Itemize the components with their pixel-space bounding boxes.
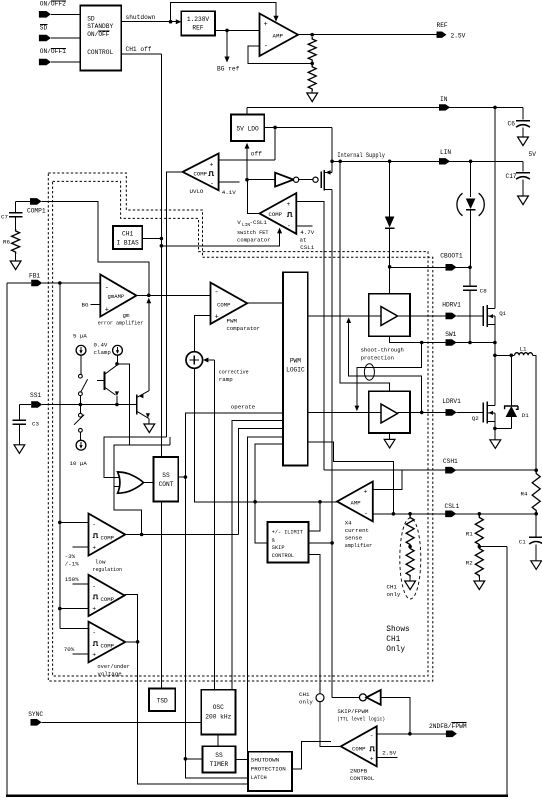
junction rail at driver supply <box>338 160 342 164</box>
wire SD to control block <box>51 37 80 39</box>
svg-text:-: - <box>92 630 96 637</box>
svg-text:AMP: AMP <box>273 33 284 40</box>
resistor divider upper <box>308 37 316 62</box>
junction FB1 bus <box>58 281 62 285</box>
svg-text:-: - <box>364 510 368 517</box>
wire low-reg plus stub <box>73 546 89 548</box>
svg-text:D1: D1 <box>522 412 529 419</box>
wire connector down to 2NDFB comp output <box>320 702 341 747</box>
svg-text:PWM: PWM <box>290 357 301 364</box>
wire operate bus <box>185 413 283 759</box>
svg-text:CH1: CH1 <box>122 230 133 237</box>
svg-text:2NDFB: 2NDFB <box>350 767 368 774</box>
op-amp gmAMP error amplifier <box>100 275 136 317</box>
svg-text:5V: 5V <box>529 151 537 158</box>
wire comp minus 4.7V stub <box>296 225 312 227</box>
svg-text:5 µA: 5 µA <box>73 332 87 339</box>
wire ramp bus from OSC <box>213 360 215 690</box>
svg-text:UVLO: UVLO <box>190 188 204 195</box>
transistor Q2 NMOS <box>482 403 484 423</box>
wire CS amp plus from CSH1 <box>373 470 402 489</box>
inverter SKIP/FPWM <box>359 694 366 701</box>
svg-text:SYNC: SYNC <box>28 711 43 718</box>
wire SS1 to lower contact <box>79 405 81 414</box>
svg-text:+: + <box>287 201 291 208</box>
capacitor C6 <box>522 107 524 119</box>
svg-text:ON/OFF: ON/OFF <box>87 31 110 38</box>
block SS CONT <box>154 457 179 502</box>
svg-text:Q1: Q1 <box>499 310 506 317</box>
svg-text:LOGIC: LOGIC <box>286 367 305 374</box>
block CH1 I BIAS <box>113 226 142 249</box>
op-amp current sense AMP x4 <box>337 482 373 522</box>
wire UVLO plus from LDO output <box>219 159 276 161</box>
svg-text:only: only <box>299 699 313 706</box>
wire ilimit out3 to CH1-only connector <box>308 555 320 694</box>
junction CSL1 at C1 <box>534 512 538 516</box>
diode circled boot (external option) <box>470 161 472 197</box>
wire Q2 drain to output rail <box>494 355 496 405</box>
wire LDO sense to UVLO+ <box>274 127 276 160</box>
junction 2NDFB pin node <box>408 732 412 736</box>
svg-text:COMP: COMP <box>269 211 283 218</box>
inverter before switch FET gate <box>275 173 293 187</box>
svg-text:I BIAS: I BIAS <box>116 239 139 246</box>
svg-text:-: - <box>92 522 96 529</box>
svg-text:5V LDO: 5V LDO <box>236 126 259 133</box>
junction CH1-off bus to comparator <box>160 244 164 248</box>
svg-text:low: low <box>95 558 106 565</box>
svg-text:STANDBY: STANDBY <box>87 23 113 30</box>
wire contact to 10uA <box>79 432 81 440</box>
svg-text:C8: C8 <box>480 288 487 295</box>
wire W1 logic to CSL1 <box>308 442 394 514</box>
transistor Q1 NMOS <box>482 306 484 326</box>
ground below Q4 <box>144 424 155 433</box>
wire UVLO output down to OR gate <box>167 172 183 437</box>
resistor R1 <box>475 516 483 547</box>
wire feedback tap to border <box>479 546 507 548</box>
svg-text:Q2: Q2 <box>472 415 479 422</box>
wire ON/OFF1 to control block <box>51 61 80 63</box>
ground below C1 <box>531 561 542 570</box>
wire upper driver supply from CBOOT <box>389 267 391 294</box>
junction off/inverter node <box>245 178 249 182</box>
resistor R6 <box>12 229 20 254</box>
svg-text:CONTROL: CONTROL <box>272 553 294 559</box>
svg-text:TIMER: TIMER <box>210 761 229 768</box>
wire clamp node to OR input bus <box>117 364 129 445</box>
junction LDO output <box>273 126 277 130</box>
junction ov/uv outputs <box>136 640 140 644</box>
svg-text:LATCH: LATCH <box>251 775 267 781</box>
dashed outer device boundary <box>48 173 433 681</box>
wire ilimit out2 to FPWM bus <box>308 542 332 544</box>
ground below R2 <box>474 581 485 590</box>
capacitor C7 <box>15 201 17 212</box>
switch blade lower <box>74 415 84 425</box>
svg-text:0.4V: 0.4V <box>94 341 108 348</box>
svg-text:CONT: CONT <box>159 481 174 488</box>
svg-text:Internal Supply: Internal Supply <box>337 152 385 159</box>
svg-text:C7: C7 <box>1 214 8 221</box>
junction SW at Q1 source <box>493 341 497 345</box>
wire CH1-off vertical bus to TSD <box>160 54 162 689</box>
wire CH1 off from control block <box>121 53 161 55</box>
svg-text:200 kHz: 200 kHz <box>205 714 231 721</box>
svg-text:BG ref: BG ref <box>217 66 240 73</box>
junction CSL1 at R1 <box>478 512 482 516</box>
resistor R4 <box>532 472 540 513</box>
wire SS1 node <box>19 404 31 406</box>
svg-text:protection: protection <box>361 354 394 361</box>
svg-text:2NDFB/FPWM: 2NDFB/FPWM <box>429 723 467 730</box>
transistor Q4 clamp NPN to gm output <box>136 394 138 414</box>
wire PWM logic in 4 (current sense) <box>255 444 283 543</box>
block OSC 200kHz <box>201 690 235 735</box>
wire L1 to CSH1 column <box>533 355 537 470</box>
junction output rail left <box>493 354 497 358</box>
junction IN rail to Q1 drain <box>493 106 497 110</box>
junction R1/R2 feedback <box>478 545 482 549</box>
switch contact upper <box>79 374 83 378</box>
comparator 2NDFB CONTROL <box>341 726 377 766</box>
svg-text:-: - <box>287 223 291 230</box>
wire HDRV1 from driver to gate <box>410 315 446 317</box>
wire upper driver return to SW <box>390 336 422 342</box>
svg-text:corrective: corrective <box>219 368 249 375</box>
transistor Q-SW switch FET (PMOS) <box>313 177 318 182</box>
wire PWM logic in 1 (clock) <box>232 420 283 689</box>
svg-text:CBOOT1: CBOOT1 <box>440 252 463 259</box>
svg-text:SD: SD <box>40 25 48 32</box>
svg-text:Shows: Shows <box>386 626 410 634</box>
svg-text:SKIP/FPWM: SKIP/FPWM <box>337 708 369 715</box>
junction AMP output divider <box>310 33 314 37</box>
block upper gate driver <box>369 294 410 337</box>
svg-text:REF: REF <box>192 25 203 32</box>
resistor R2 <box>475 547 483 578</box>
junction SW at driver return <box>420 341 424 345</box>
comparator switch FET (VLIN-CSL1) <box>260 193 297 234</box>
svg-text:R4: R4 <box>521 491 528 498</box>
wire OSC to SS TIMER <box>217 735 219 747</box>
svg-text:COMP: COMP <box>217 301 231 308</box>
svg-text:+: + <box>364 489 368 496</box>
svg-text:+: + <box>215 314 219 322</box>
svg-text:-: - <box>210 180 214 187</box>
svg-text:4.1V: 4.1V <box>222 189 236 196</box>
wire IN to 5V LDO <box>246 107 248 114</box>
wire ilimit out1 to cs node <box>308 502 320 531</box>
svg-text:CH1: CH1 <box>387 583 398 590</box>
wire SW1 <box>390 342 495 344</box>
junction CH1-only divider <box>408 545 412 549</box>
wire low-reg minus from FB1 bus <box>60 521 89 523</box>
junction rail at LDO feed <box>330 160 334 164</box>
svg-text:operate: operate <box>231 404 256 411</box>
svg-text:-CSL1: -CSL1 <box>250 219 268 226</box>
block TSD <box>149 689 175 712</box>
svg-text:SD: SD <box>87 16 95 23</box>
ground below C3 <box>14 445 25 454</box>
svg-text:150%: 150% <box>65 576 79 583</box>
resistor CH1-only lower <box>406 547 414 578</box>
svg-text:+: + <box>92 606 96 613</box>
gate OR <box>118 472 144 493</box>
svg-text:X4: X4 <box>345 519 352 526</box>
svg-text:-: - <box>215 289 219 297</box>
svg-text:IN: IN <box>440 96 448 103</box>
op-amp AMP (reference buffer) <box>260 14 299 57</box>
junction CBOOT at C8 <box>468 266 472 270</box>
svg-text:PROTECTION: PROTECTION <box>251 766 286 772</box>
svg-text:LDRV1: LDRV1 <box>442 398 461 405</box>
wire CS amp minus / CSL1 line <box>373 513 536 515</box>
ground arrow below R6 <box>15 254 17 261</box>
junction clamp node <box>115 362 119 366</box>
wire CSH1 line <box>324 469 536 471</box>
svg-text:comparator: comparator <box>237 236 271 243</box>
wire right feedback riser to R1/R2 <box>506 547 508 796</box>
svg-text:amplifier: amplifier <box>345 542 373 549</box>
junction CSL1 at W1 <box>392 512 396 516</box>
svg-text:10 µA: 10 µA <box>70 460 88 467</box>
wire PWM comparator output <box>247 302 283 304</box>
junction on SS1 wire (clamp emitter) <box>115 403 119 407</box>
wire comp plus to CSH1 bus <box>296 202 324 471</box>
wire summing to current sense line <box>194 368 337 502</box>
svg-text:70%: 70% <box>64 646 75 653</box>
svg-text:+: + <box>370 756 374 763</box>
wire Q2 source to D1 anode <box>495 427 511 429</box>
wire OR input H2 from clamp bus <box>114 445 170 534</box>
svg-text:L1: L1 <box>520 345 527 352</box>
diode internal boot <box>389 161 391 216</box>
wire off signal with arrow into LDO <box>246 149 248 180</box>
block SHUTDOWN PROTECTION LATCH <box>248 752 292 791</box>
svg-text:+: + <box>210 162 214 169</box>
svg-text:CH1: CH1 <box>299 691 310 698</box>
svg-text:C3: C3 <box>32 420 39 427</box>
wire FB1 feedback from left border <box>7 282 31 284</box>
svg-text:comparator: comparator <box>227 325 261 332</box>
ground below C6 <box>518 137 529 146</box>
junction CSH1 at R4 <box>534 468 538 472</box>
junction shutdown node <box>169 20 173 24</box>
wire switch to SS1 node <box>79 396 81 405</box>
junction gmAMP output <box>147 294 151 298</box>
wire lower driver supply from rail <box>340 161 389 391</box>
wire OR input 2 stub <box>114 486 120 488</box>
svg-text:ON/OFF2: ON/OFF2 <box>40 0 66 7</box>
wire clamp source to node <box>117 355 119 362</box>
svg-text:Only: Only <box>386 646 405 654</box>
wire UVLO minus 4.1V stub <box>219 181 240 183</box>
svg-text:C1: C1 <box>519 539 526 546</box>
wire PMOS source to rail <box>331 161 333 172</box>
svg-text:CONTROL: CONTROL <box>87 49 113 56</box>
wire lower driver ground <box>389 433 391 439</box>
svg-text:shutdown: shutdown <box>126 14 156 21</box>
diode D1 schottky <box>510 355 512 406</box>
svg-text:(TTL level logic): (TTL level logic) <box>337 715 385 722</box>
capacitor C1 <box>535 514 537 537</box>
svg-text:C17: C17 <box>506 173 517 180</box>
junction Q2 source node <box>493 427 497 431</box>
junction SW at C8 <box>468 341 472 345</box>
block SS TIMER <box>203 746 236 772</box>
ground arrow below CH1-only resistors <box>405 581 416 590</box>
wire 2NDFB plus 2.5V stub <box>377 757 398 759</box>
wire latch output right <box>292 741 331 769</box>
svg-text:REF: REF <box>437 22 448 29</box>
wire 70% plus stub <box>73 653 89 655</box>
wire PWM+ from summing <box>194 315 210 351</box>
wire bottom border feedback <box>6 795 508 797</box>
wire CBOOT1 <box>390 266 470 268</box>
capacitor C3 <box>18 405 20 420</box>
wire COMP1 to gm amp output <box>16 200 30 202</box>
block U-CTRL SD STANDBY ON/OFF CONTROL <box>80 6 121 71</box>
svg-text:FB1: FB1 <box>29 272 40 279</box>
svg-text:SHUTDOWN: SHUTDOWN <box>251 758 279 764</box>
wire OR input H1 from UVLO bus <box>104 437 166 478</box>
wire SW down to output rail <box>494 343 496 356</box>
svg-text:OSC: OSC <box>213 704 224 711</box>
wire bus to latch lower input <box>185 759 248 778</box>
svg-text:HDRV1: HDRV1 <box>442 302 461 309</box>
wire IN rail <box>247 106 523 108</box>
wire LDRV1 from driver to gate <box>410 411 446 413</box>
wire Q4 collector up to gm output arrow <box>148 303 150 391</box>
wire ramp into summing with arrow <box>203 358 208 363</box>
wire 2NDFB minus to pin <box>377 733 446 735</box>
svg-text:current: current <box>345 527 369 534</box>
capacitor C17 <box>522 161 524 171</box>
svg-text:COMP1: COMP1 <box>27 207 46 214</box>
svg-text:SS1: SS1 <box>30 392 41 399</box>
wire AMP output to REF pin <box>298 34 437 36</box>
svg-text:+: + <box>264 21 268 29</box>
svg-text:1.238V: 1.238V <box>187 16 210 23</box>
svg-text:-: - <box>370 733 374 740</box>
junction low-reg output <box>140 533 144 537</box>
wire BG ref <box>226 30 228 56</box>
wire Q2 source down <box>494 413 496 429</box>
junction cs bus <box>253 500 257 504</box>
svg-text:switch FET: switch FET <box>237 229 269 236</box>
wire inverter input from pin bus <box>381 697 410 733</box>
svg-text:2.5V: 2.5V <box>382 750 396 757</box>
summing junction corrective ramp <box>186 352 203 369</box>
svg-text:-: - <box>92 583 96 590</box>
svg-text:4.7V: 4.7V <box>300 229 314 236</box>
svg-text:TSD: TSD <box>157 698 168 705</box>
svg-text:PWM: PWM <box>227 317 238 324</box>
svg-text:CSH1: CSH1 <box>443 458 458 465</box>
wire 5uA to switch <box>80 355 82 374</box>
junction CBOOT wire left <box>388 265 392 269</box>
wire Q1 drain to IN <box>494 107 496 308</box>
junction drain bus / ilimit wire2 <box>330 541 334 545</box>
wire Q1 source to SW <box>494 316 496 342</box>
junction operate bus to SS TIMER <box>184 757 188 761</box>
wire PMOS drain bus down to skip logic <box>331 190 333 543</box>
wire shutdown: control block to 1.238V REF <box>121 21 177 23</box>
svg-text:R1: R1 <box>466 531 473 538</box>
svg-text:-3%: -3% <box>65 553 76 560</box>
wire Q4 emitter to ground <box>137 411 149 418</box>
svg-text:SS: SS <box>162 472 170 479</box>
wire REF output to AMP <box>215 29 260 31</box>
wire comp output up to off node <box>247 180 259 214</box>
wire PWM logic in 3 (latch) <box>247 437 283 752</box>
junction divider mid <box>310 62 314 66</box>
wire AMP feedback loop <box>248 46 312 64</box>
svg-text:+: + <box>105 307 109 315</box>
switch blade upper <box>81 379 88 392</box>
svg-text:CSL1: CSL1 <box>300 244 314 251</box>
wire CH1 I BIAS to CH1-off bus <box>142 238 161 240</box>
svg-text:+/- ILIMIT: +/- ILIMIT <box>272 530 303 536</box>
ground below C17 <box>518 196 529 205</box>
svg-text:/-1%: /-1% <box>65 561 79 568</box>
svg-text:+: + <box>92 652 96 659</box>
svg-text:gmAMP: gmAMP <box>108 293 125 300</box>
svg-text:AMP: AMP <box>351 499 362 506</box>
junction SS CONT output <box>184 475 188 479</box>
wire stub col right of H2 <box>169 437 171 445</box>
resistor CH1-only upper <box>406 516 414 547</box>
wire FPWM bus to inverter <box>332 696 359 698</box>
svg-text:+: + <box>92 545 96 552</box>
ground below lower driver <box>384 439 395 448</box>
svg-text:V: V <box>237 219 241 226</box>
svg-text:-: - <box>264 43 268 51</box>
resistor divider lower <box>308 65 316 91</box>
junction output rail at D1 <box>510 354 514 358</box>
svg-text:CONTROL: CONTROL <box>350 775 375 782</box>
svg-text:LIN: LIN <box>440 149 451 156</box>
wire gmAMP output to PWM comparator <box>136 294 210 296</box>
svg-text:clamp: clamp <box>94 349 112 356</box>
current source 0.4V clamp <box>113 345 123 355</box>
svg-text:ON/OFF1: ON/OFF1 <box>40 48 66 55</box>
connector CH1 only circle <box>316 694 324 702</box>
junction on SS1 wire (switch) <box>79 403 83 407</box>
junction rail at boot diode <box>388 160 392 164</box>
ellipse shoot-through crossover <box>364 364 374 380</box>
svg-text:at: at <box>300 237 307 244</box>
wire left border feedback <box>6 283 8 796</box>
wire LDRV signal to lower driver <box>308 411 369 413</box>
svg-text:CH1 off: CH1 off <box>126 46 152 53</box>
svg-text:SW1: SW1 <box>445 331 456 338</box>
wire inverter input <box>247 179 275 181</box>
svg-text:C6: C6 <box>508 121 516 128</box>
wire 70% minus from FB1 bus bottom <box>60 627 89 629</box>
ellipse CH1 only dashed <box>400 518 421 599</box>
svg-text:BG: BG <box>82 302 89 309</box>
svg-text:R6: R6 <box>3 239 10 246</box>
junction rail at boot circle diode <box>469 160 473 164</box>
svg-text:COMP: COMP <box>194 170 208 177</box>
svg-text:SKIP: SKIP <box>272 545 285 551</box>
wire ON/OFF2 to control block <box>51 13 80 15</box>
wire 150% minus stub <box>73 583 89 585</box>
wire SYNC to OSC <box>42 721 202 723</box>
